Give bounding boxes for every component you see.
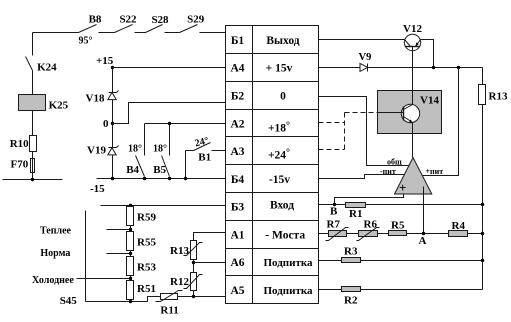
svg-text:общ: общ (387, 157, 402, 166)
pin A2 +18 (230, 118, 290, 134)
svg-text:Вход: Вход (270, 200, 294, 212)
pin B3 Vhod (231, 200, 294, 214)
junction B5 top (168, 122, 171, 125)
switch B5 (153, 144, 171, 181)
label Norma (40, 248, 130, 259)
switch B8 (79, 14, 102, 47)
svg-text:Подпитка: Подпитка (263, 285, 313, 297)
connector row lines (226, 54, 319, 276)
junction Holodnee tap (129, 277, 132, 280)
svg-text:R55: R55 (137, 237, 156, 249)
wire pin B4 to -pit (319, 175, 405, 179)
wire V12 collector to junction (421, 40, 434, 68)
svg-text:R1: R1 (349, 208, 362, 220)
svg-text:R5: R5 (391, 220, 405, 232)
svg-text:А3: А3 (230, 146, 244, 158)
wire R13 top to pin A1 (194, 233, 226, 241)
trimmer R12 (170, 273, 203, 297)
svg-text:R2: R2 (344, 295, 358, 307)
svg-text:А5: А5 (230, 285, 244, 297)
trimmer R7 (326, 219, 349, 241)
svg-text:R10: R10 (10, 138, 29, 150)
trimmer R6 (357, 219, 380, 241)
resistor R59 (127, 206, 157, 226)
svg-text:K24: K24 (37, 62, 57, 74)
svg-text:+15: +15 (96, 55, 114, 67)
node A (419, 232, 427, 247)
svg-text:R13: R13 (170, 245, 189, 257)
wire between S22 and S28 (135, 32, 146, 34)
wire pin B1 to V12 base (319, 39, 405, 41)
wire between S28 and S29 (165, 32, 180, 34)
junction R3 bus (481, 259, 484, 262)
svg-text:+ 15v: + 15v (266, 63, 293, 75)
resistor R55 (127, 232, 157, 251)
node B (330, 203, 338, 218)
junction +pit branch (457, 66, 460, 69)
junction R13 R12 (192, 261, 195, 264)
dashed wire pin A3 (319, 149, 345, 151)
pin A4 +15v (230, 63, 292, 75)
fuse F70 (11, 159, 35, 173)
dashed wire to V14 base (345, 112, 378, 114)
wire R3 to right bus (361, 260, 483, 262)
svg-text:B1: B1 (198, 152, 211, 164)
resistor R51 (127, 281, 156, 300)
wire A6 junction to pin A6 (194, 262, 226, 264)
wire V18 to node 0 (112, 100, 114, 124)
wire R6 to R5 (378, 233, 389, 235)
wire K24 to K25 (32, 71, 34, 95)
svg-text:+пит: +пит (426, 167, 444, 176)
wire R59 to R55 (130, 226, 132, 232)
connector column divider (252, 26, 254, 304)
resistor R10 (10, 136, 37, 152)
svg-text:Б1: Б1 (231, 35, 245, 47)
svg-text:18°: 18° (153, 144, 167, 155)
trimmer R11 (156, 291, 183, 317)
wire +pit to top bus (423, 68, 459, 176)
wire left vertical down to K24 (32, 33, 34, 56)
junction V12 collector (432, 66, 435, 69)
resistor R13 right (479, 85, 508, 105)
svg-text:R59: R59 (137, 212, 156, 224)
svg-text:B4: B4 (126, 164, 139, 176)
wire pin B3 to R1 (319, 204, 346, 206)
pin A6 Podpitka (230, 257, 313, 269)
svg-text:А1: А1 (230, 229, 244, 241)
wire bus down to R13 (482, 68, 484, 85)
svg-text:B8: B8 (89, 14, 102, 26)
wire R4 to right bus (468, 233, 483, 235)
svg-text:S45: S45 (60, 295, 78, 307)
wire B5 upper contact (169, 124, 171, 156)
wire R1 to right bus (366, 204, 483, 206)
switch S29 (180, 14, 205, 33)
label Holodnee (32, 275, 131, 286)
svg-text:R7: R7 (327, 219, 341, 231)
wire bottom rail S45 to R11 (86, 297, 161, 302)
wire V12 emitter down to V14 (412, 47, 414, 105)
svg-text:K25: K25 (49, 99, 69, 111)
pin B1 Vyhod (231, 35, 300, 47)
junction Teplee tap (129, 228, 132, 231)
wire top-left horizontal to B8 (33, 32, 79, 34)
pin A3 +24 (230, 146, 290, 161)
connector block outline (226, 26, 319, 304)
zener diode V18 (86, 91, 119, 105)
pin B2 0 (231, 91, 286, 103)
svg-text:95°: 95° (79, 36, 93, 47)
wire pin A6 to R3 (319, 260, 342, 262)
wire V19 to -15 rail (112, 155, 114, 179)
svg-text:Б2: Б2 (231, 91, 245, 103)
wire pin B2 to obshch (319, 97, 409, 166)
svg-text:S28: S28 (151, 14, 169, 26)
svg-text:-15: -15 (90, 183, 105, 195)
wire R5 to R4 (407, 233, 449, 235)
wire pin A5 to R2 (319, 289, 342, 291)
svg-text:R13: R13 (489, 91, 508, 103)
wire V9 to right bus corner (368, 67, 483, 69)
svg-text:Б3: Б3 (231, 202, 245, 214)
wire R55 to R53 (130, 251, 132, 257)
junction R1 bus (481, 203, 484, 206)
svg-text:F70: F70 (11, 159, 29, 171)
switch S28 (146, 14, 170, 33)
wire B4 upper contact (144, 124, 146, 156)
svg-text:Выход: Выход (266, 35, 299, 47)
svg-text:Б4: Б4 (231, 174, 245, 186)
svg-text:A: A (419, 235, 427, 247)
svg-text:R4: R4 (452, 220, 466, 232)
wire F70 to bottom-left rail (32, 173, 34, 180)
svg-text:B: B (330, 206, 338, 218)
switch S45 common bar (60, 211, 86, 308)
diode V9 (359, 52, 372, 72)
wire R10 to F70 (32, 152, 34, 159)
svg-text:Теплее: Теплее (40, 226, 72, 237)
wire pin A1 to R7 (319, 233, 329, 235)
wire op-amp right input to node A (423, 187, 425, 234)
module V14 (378, 91, 442, 134)
node 0 (103, 118, 114, 130)
svg-text:R12: R12 (170, 276, 189, 288)
wire +18 line to pin A2 (145, 123, 226, 125)
relay coil K25 (19, 95, 69, 112)
zener diode V19 (87, 145, 119, 157)
wire pin A4 to V9 (319, 67, 361, 69)
wire op-amp plus input to node B (335, 195, 404, 205)
wire R12 to A6 junction (193, 263, 195, 273)
wire R2 to right bus (361, 289, 483, 291)
switch K24 (26, 57, 58, 74)
svg-text:-пит: -пит (380, 167, 396, 176)
svg-text:0: 0 (280, 91, 286, 103)
wire node 0 down to V19 (112, 124, 114, 148)
resistor R5 (389, 220, 407, 236)
wire +15 down to V18 (112, 68, 114, 93)
pin B4 -15v (231, 174, 290, 186)
dashed wire pin A2 (319, 122, 345, 124)
resistor R4 (449, 220, 468, 237)
switch S22 (115, 14, 138, 33)
pin A5 Podpitka (230, 285, 313, 297)
junction Norma tap (129, 252, 132, 255)
svg-text:Норма: Норма (40, 248, 70, 259)
svg-text:0: 0 (103, 118, 109, 130)
wire Vhod line to pin B3 (101, 205, 226, 207)
op-amp U1 (395, 158, 432, 196)
svg-text:А2: А2 (230, 118, 244, 130)
svg-text:А4: А4 (230, 63, 244, 75)
svg-text:V12: V12 (403, 23, 422, 35)
svg-text:Холоднее: Холоднее (32, 275, 74, 286)
svg-text:V14: V14 (420, 95, 439, 107)
svg-text:+: + (399, 180, 406, 195)
resistor R3 (342, 246, 361, 263)
junction V19 rail (111, 177, 114, 180)
node +15 (96, 55, 114, 69)
wire node 0 jog to pin B2 (113, 103, 226, 124)
svg-text:- Моста: - Моста (265, 229, 305, 241)
resistor R1 (346, 203, 366, 221)
wire R51 to bottom rail (130, 300, 132, 302)
wire V14 emitter to op-amp (412, 123, 414, 158)
junction R4 bus (481, 232, 484, 235)
svg-text:V19: V19 (87, 145, 106, 157)
svg-text:B5: B5 (153, 164, 166, 176)
svg-text:А6: А6 (230, 257, 244, 269)
junction R51 bottom (129, 300, 132, 303)
trimmer R13 lower (170, 241, 203, 263)
svg-text:V9: V9 (359, 52, 372, 63)
wire -15 rail (90, 179, 226, 196)
dashed wire vertical (344, 113, 346, 150)
svg-text:Подпитка: Подпитка (263, 257, 313, 269)
svg-text:18°: 18° (128, 144, 142, 155)
wire S29 to pin B1 of connector (200, 32, 226, 34)
wire R53 to R51 (130, 276, 132, 281)
switch B1 (184, 135, 226, 180)
wire K25 to R10 (32, 111, 34, 136)
resistor R53 (127, 257, 157, 276)
svg-text:R11: R11 (160, 305, 178, 317)
junction F70 rail (31, 178, 34, 181)
svg-text:S22: S22 (119, 14, 137, 26)
pin A1 -Mosta (230, 229, 305, 241)
label Teplee (40, 226, 131, 237)
svg-text:-15v: -15v (269, 174, 290, 186)
junction R12 bottom (192, 295, 195, 298)
wire between B8 and S22 (99, 32, 115, 34)
wire bottom-left rail (3, 179, 63, 181)
wire right bus vertical (482, 105, 484, 290)
wire +15 to pin A4 (113, 67, 226, 69)
junction R59 top (129, 204, 132, 207)
svg-text:V18: V18 (86, 93, 105, 105)
svg-text:R3: R3 (344, 246, 358, 258)
svg-text:R6: R6 (364, 219, 378, 231)
wire R11 to pin A5 (178, 296, 226, 298)
switch B4 (126, 144, 146, 181)
svg-text:R53: R53 (137, 262, 156, 274)
transistor V12 (403, 23, 422, 51)
wire R7 to R6 (347, 233, 359, 235)
svg-text:R51: R51 (137, 283, 156, 295)
resistor R2 (342, 287, 361, 307)
svg-text:S29: S29 (187, 14, 205, 26)
